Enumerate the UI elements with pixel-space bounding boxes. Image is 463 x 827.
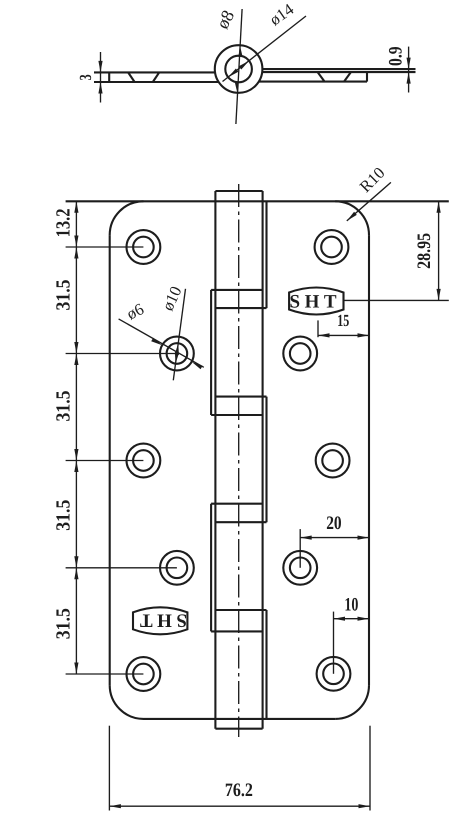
- screw hole R2 countersunk: [283, 337, 317, 371]
- leader to hole row 1: [66, 246, 144, 248]
- right leaf knuckle wrap edges: [265, 201, 267, 308]
- svg-text:R10: R10: [356, 163, 389, 196]
- dimension 0.9: extension line: [408, 47, 410, 93]
- knuckle barrel left edge: [214, 191, 216, 729]
- top view: right leaf end edge: [366, 72, 368, 82]
- screw hole R4 countersunk: [283, 551, 317, 585]
- svg-text:31.5: 31.5: [53, 391, 75, 422]
- diameter 6 leader line: [119, 319, 204, 367]
- dimension 10 extension line: [333, 612, 335, 674]
- screw hole R5 countersunk: [317, 657, 351, 691]
- dimension 28.95 extension line: [344, 299, 449, 301]
- dimension 15 tick: [317, 320, 319, 337]
- svg-text:ø6: ø6: [124, 299, 147, 323]
- top view: left leaf inner edge line: [108, 72, 110, 82]
- hinge top edge with extension lines: [66, 200, 449, 202]
- top view: right leaf bottom edge: [259, 81, 367, 83]
- leader to hole row 3: [66, 460, 144, 462]
- svg-text:31.5: 31.5: [53, 280, 75, 311]
- screw hole L4 countersunk: [160, 551, 194, 585]
- top view: right leaf second surface line: [262, 71, 415, 73]
- R10 leader arrow: [347, 182, 391, 221]
- left dimension chain line: [75, 201, 77, 674]
- svg-text:31.5: 31.5: [53, 608, 75, 639]
- dimension 3 (leaf thickness): extension line: [100, 52, 102, 103]
- screw hole R3 countersunk: [316, 444, 350, 478]
- svg-text:SHT: SHT: [290, 291, 342, 312]
- svg-text:20: 20: [326, 513, 341, 534]
- leader to hole row 5: [66, 673, 144, 675]
- left leaf knuckle wrap edges: [210, 290, 212, 415]
- SHT logo stamp on left leaf (upside down): [133, 607, 187, 634]
- barrel bottom cap line: [215, 728, 262, 730]
- top view: left leaf plate top edge: [94, 71, 215, 73]
- top view: right leaf countersink hole (section): [318, 72, 325, 82]
- svg-text:ø8: ø8: [212, 7, 238, 32]
- svg-text:13.2: 13.2: [53, 208, 75, 237]
- dimension 20 extension line: [299, 529, 301, 568]
- knuckle barrel outer circle (top view): [215, 45, 263, 93]
- top view: left leaf countersink hole (section): [128, 72, 135, 82]
- dimension 10 line: [334, 618, 370, 620]
- dimension 28.95 line: [438, 201, 440, 300]
- screw hole L5 countersunk: [126, 657, 160, 691]
- dimension 20 line: [300, 537, 369, 539]
- knuckle pin hole inner circle (top view): [225, 56, 252, 83]
- svg-text:10: 10: [344, 595, 358, 616]
- hinge bottom edge: [144, 718, 336, 720]
- top view: left leaf plate bottom edge: [94, 81, 219, 83]
- svg-text:0.9: 0.9: [385, 46, 406, 65]
- svg-text:ø10: ø10: [158, 283, 186, 313]
- diameter 8 leader line through pin hole: [223, 16, 307, 82]
- svg-text:28.95: 28.95: [414, 233, 435, 269]
- svg-text:31.5: 31.5: [53, 500, 75, 531]
- svg-text:15: 15: [337, 311, 349, 330]
- svg-text:SHT: SHT: [135, 610, 187, 631]
- leader to hole row 2: [66, 353, 177, 355]
- screw hole L3 countersunk: [126, 444, 160, 478]
- knuckle barrel right edge: [262, 191, 264, 729]
- top view: right leaf top surface line: [262, 68, 415, 70]
- barrel top cap line: [215, 190, 262, 192]
- screw hole L2 countersunk: [160, 337, 194, 371]
- chain arrows: [74, 201, 78, 213]
- knuckle segment division lines: [211, 289, 263, 291]
- leader to hole row 4: [66, 567, 177, 569]
- screw hole R1 countersunk: [315, 230, 349, 264]
- dimension 15 line: [318, 334, 369, 336]
- hinge right edge: [368, 235, 370, 685]
- SHT logo stamp on right leaf: [289, 288, 343, 315]
- svg-text:76.2: 76.2: [225, 780, 253, 801]
- svg-text:ø14: ø14: [266, 0, 297, 29]
- dimension 76.2 extension lines: [108, 726, 110, 811]
- dimension 76.2 line: [109, 805, 370, 807]
- screw hole L1 countersunk: [126, 230, 160, 264]
- hinge corner arcs R10: [110, 201, 144, 235]
- diameter 10 leader line: [173, 289, 185, 381]
- svg-text:3: 3: [76, 74, 95, 80]
- hinge pin centerline: [238, 184, 240, 737]
- diameter 14 leader line through knuckle: [236, 9, 242, 124]
- hinge left edge: [109, 235, 111, 685]
